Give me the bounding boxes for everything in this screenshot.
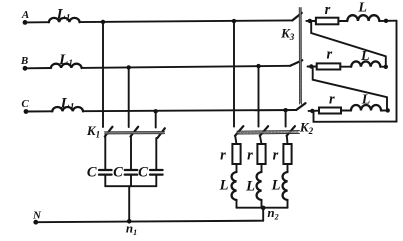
switch K1 blade b: [131, 127, 139, 137]
svg-text:C: C: [138, 165, 148, 181]
wire phase A left segment: [25, 21, 49, 23]
wire r2 to L coil: [261, 164, 263, 172]
wire drop B to K1: [128, 67, 130, 127]
inductor L (delta branch C): [351, 105, 381, 110]
resistor r1 (delta branch A): [316, 18, 339, 25]
inductor L (delta branch B): [351, 61, 380, 66]
svg-text:L: L: [361, 93, 371, 108]
wire drop C to K1: [155, 111, 157, 127]
node A drop to K2: [232, 19, 236, 23]
wire n2 to neutral: [262, 208, 264, 221]
wire r1 to L1 coil: [236, 164, 238, 172]
node n2: [261, 206, 266, 211]
wire drop C to K2: [285, 110, 287, 126]
svg-text:L: L: [245, 179, 255, 195]
svg-text:A: A: [21, 9, 29, 21]
wire coil b to junction: [380, 66, 385, 68]
wire contact a to r1: [306, 20, 316, 22]
inductor L1 (phase C): [52, 107, 83, 111]
svg-text:r: r: [273, 148, 279, 164]
node B drop to K1: [127, 65, 131, 69]
wire phase C to switch K3: [83, 110, 296, 111]
switch K1 blade c: [157, 128, 164, 138]
switch K1 linkage bar: [105, 132, 165, 134]
wire coil to right edge: [379, 20, 396, 22]
capacitor C2: [125, 170, 138, 175]
switch K2 blade b: [260, 126, 268, 136]
node delta C right: [386, 108, 390, 112]
resistor r1 (K2 branch): [232, 144, 240, 164]
node A terminal: [23, 20, 28, 25]
node n1: [127, 219, 132, 224]
svg-text:L: L: [271, 178, 281, 194]
wire contact c to r3: [309, 110, 320, 112]
svg-text:L: L: [357, 1, 367, 16]
svg-text:r: r: [325, 2, 331, 18]
wire K2 blade a to resistor r1: [235, 136, 236, 144]
wire phase C left segment: [26, 110, 52, 112]
capacitor C3: [150, 170, 163, 175]
inductor L (K2 branch 2): [257, 172, 262, 200]
wire phase B to switch K3: [82, 66, 291, 68]
wire capacitor 2 to bus: [130, 175, 132, 187]
wire neutral N line: [36, 221, 263, 223]
resistor r2 (K2 branch): [257, 144, 265, 164]
wire r3 to coil L: [341, 110, 351, 112]
wire r3 to L coil: [287, 164, 289, 172]
wire bus to node n1: [128, 186, 130, 221]
wire drop B to K2: [258, 66, 260, 127]
wire capacitor 3 to bus: [155, 175, 157, 187]
wire delta drop from B side: [313, 67, 387, 111]
resistor r2 (delta branch B): [317, 63, 341, 69]
svg-text:N: N: [32, 210, 42, 222]
node delta B right: [384, 65, 388, 69]
wire L3 coil to n2 bus: [287, 200, 289, 208]
wire K2 blade c to resistor r3: [286, 136, 289, 144]
inductor L (K2 branch 3): [283, 172, 288, 200]
svg-text:B: B: [20, 55, 28, 67]
wire K2 blade b to resistor r2: [260, 136, 262, 144]
switch K3 blade a: [292, 13, 301, 21]
svg-text:r: r: [329, 92, 335, 108]
node C terminal: [24, 109, 29, 114]
resistor r3 (K2 branch): [283, 144, 291, 164]
svg-text:r: r: [247, 148, 253, 164]
resistor r3 (delta branch C): [319, 108, 341, 114]
wire drop A to K2: [233, 21, 235, 127]
svg-text:C: C: [87, 165, 97, 181]
switch K2 blade c: [287, 126, 295, 136]
wire delta drop from A side: [311, 21, 386, 67]
wire n2 bus: [237, 207, 288, 209]
inductor L1 (phase A): [49, 18, 80, 22]
svg-text:L: L: [360, 49, 370, 64]
switch K1 blade a: [105, 127, 113, 137]
node K3 contact c: [310, 109, 314, 113]
node delta A right: [384, 19, 388, 23]
wire phase B left segment: [25, 67, 51, 69]
capacitor C1: [99, 170, 112, 175]
node K3 contact a: [308, 19, 312, 23]
node N terminal: [33, 220, 38, 225]
node C drop to K2: [283, 108, 287, 112]
switch K2 linkage bar: [237, 131, 300, 134]
wire drop A to K1: [102, 22, 104, 127]
wire K1 blade b to capacitor 2: [130, 137, 132, 171]
inductor L (K2 branch 1): [232, 172, 237, 200]
inductor L (delta branch A): [347, 15, 379, 21]
wire L1 coil to n2 bus: [236, 200, 238, 208]
wire r1 to coil L: [338, 20, 347, 22]
wire K1 blade a to capacitor 1: [104, 137, 106, 171]
svg-text:r: r: [220, 148, 226, 164]
inductor L1 (phase B): [51, 64, 82, 68]
switch K2 blade a: [235, 126, 243, 136]
wire K1 blade c to capacitor 3: [155, 138, 157, 170]
node K3 contact b: [309, 64, 313, 68]
switch K3 blade b: [290, 60, 302, 66]
svg-text:r: r: [326, 47, 332, 63]
switch K3 blade c: [296, 103, 305, 110]
node B drop to K2: [256, 64, 260, 68]
wire delta bottom from C side: [314, 21, 397, 122]
node B terminal: [23, 66, 28, 71]
node C drop to K1: [154, 109, 158, 113]
svg-text:L: L: [219, 178, 229, 194]
wire capacitor 1 to bus: [104, 175, 106, 187]
switch K3 linkage bar: [299, 8, 301, 105]
wire phase A to switch K3: [80, 20, 293, 22]
wire coil c to junction: [381, 109, 388, 111]
wire capacitor bus: [105, 185, 156, 187]
wire r2 to coil L: [340, 66, 351, 68]
svg-text:C: C: [21, 98, 29, 110]
node A drop to K1: [101, 20, 105, 24]
svg-text:C: C: [113, 165, 123, 181]
wire L2 coil to n2 bus: [261, 200, 263, 208]
wire contact b to r2: [308, 66, 317, 68]
